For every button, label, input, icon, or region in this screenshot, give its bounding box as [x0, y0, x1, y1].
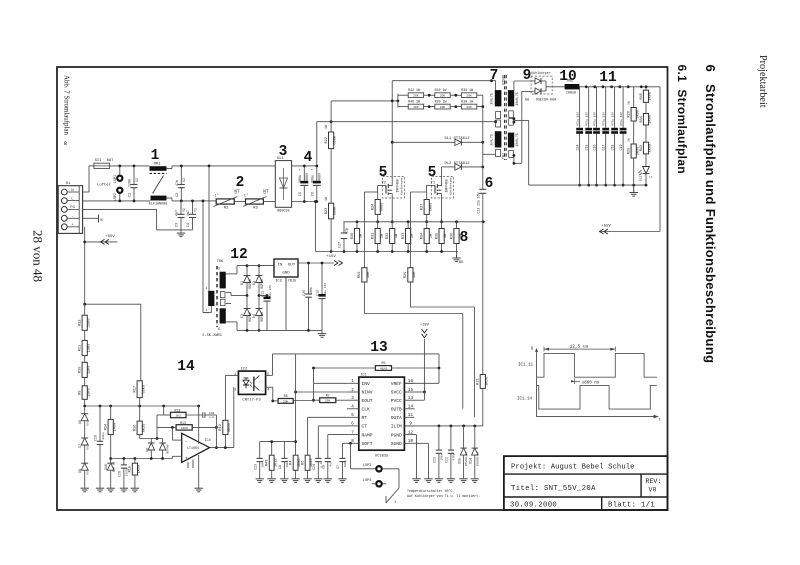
ILIM network wire	[404, 425, 482, 427]
svg-text:LSP3: LSP3	[363, 464, 372, 468]
resistor R39 20K 1W	[461, 88, 477, 98]
resistor R22 680K 1W	[325, 124, 338, 149]
clamp diode DL2 STTA612	[442, 162, 483, 170]
svg-text:RT: RT	[362, 415, 368, 421]
bleeder resistor R26 5W	[628, 87, 641, 144]
right margin header Projektarbeit	[757, 55, 768, 108]
svg-text:LSP4: LSP4	[363, 479, 372, 483]
period dimension 12,5 us	[544, 344, 615, 351]
TR6 secondary mid leads	[226, 292, 231, 294]
resistor R40 20K 1W	[435, 88, 451, 98]
R-network feed wire	[397, 100, 400, 103]
svg-text:PVCC: PVCC	[391, 398, 402, 404]
svg-text:LT1004: LT1004	[187, 446, 199, 450]
sense resistor R21	[477, 375, 490, 426]
rectifier diode D4 RGP10	[252, 296, 264, 331]
component R6 1K80	[301, 455, 314, 475]
svg-text:C9: C9	[278, 465, 282, 469]
wire AC top to TR6 primary	[208, 166, 210, 291]
svg-text:4n7: 4n7	[329, 461, 332, 467]
svg-text:C16: C16	[592, 145, 596, 151]
svg-text:12: 12	[230, 247, 247, 263]
section label 12	[230, 247, 247, 263]
plus terminal wire down to divider	[84, 227, 86, 242]
title block frame	[504, 456, 668, 510]
wire R16 to clamp diodes	[140, 438, 163, 440]
svg-text:20K: 20K	[325, 400, 331, 403]
section label 1	[151, 148, 160, 164]
gate pull resistor R27	[421, 192, 434, 223]
svg-text:R22: R22	[325, 137, 329, 143]
svg-text:15K0: 15K0	[87, 318, 91, 327]
divider feed wire from +55V terminal	[85, 303, 141, 305]
solder lug LSP2	[114, 188, 122, 201]
svg-text:B: B	[64, 141, 67, 147]
svg-text:X2: X2	[136, 178, 140, 182]
svg-text:+: +	[311, 169, 313, 173]
section label 5	[379, 165, 388, 181]
svg-text:C22: C22	[445, 457, 449, 463]
capacitor C3 4n7 Y2	[176, 201, 187, 230]
svg-text:100n: 100n	[261, 460, 264, 467]
svg-text:Kühlkörper: Kühlkörper	[449, 177, 453, 195]
waveform IC1.14 trace	[537, 386, 657, 410]
svg-text:EOUT: EOUT	[362, 398, 373, 404]
svg-text:+15V: +15V	[326, 255, 336, 259]
solder lug LSP4	[363, 479, 382, 486]
svg-text:R50: R50	[358, 272, 362, 278]
svg-text:C1: C1	[129, 193, 133, 197]
svg-text:5W: 5W	[628, 101, 631, 105]
section heading 6.1 Stromlaufplan	[675, 65, 689, 174]
svg-text:100u 16V: 100u 16V	[324, 283, 327, 298]
left margin caption Abb. 7 Stromlaufplan	[63, 75, 70, 135]
waveform diagram axes	[531, 348, 661, 423]
electrolytic C16 470u 63V	[592, 87, 599, 185]
svg-text:V0: V0	[649, 487, 657, 494]
svg-text:41K9: 41K9	[380, 368, 387, 371]
svg-text:62p: 62p	[345, 228, 349, 234]
svg-text:SOFT: SOFT	[362, 441, 373, 447]
wire SOFT pin to C7 and LSP3	[343, 442, 348, 444]
resistor R46 20K 1W	[408, 100, 424, 110]
svg-text:D6: D6	[78, 420, 82, 424]
waveform IC1.11 label	[518, 364, 534, 368]
earth ground of Y-caps	[177, 230, 185, 237]
svg-text:C19: C19	[619, 145, 623, 151]
svg-text:R8: R8	[284, 394, 288, 398]
shunt resistor R33	[402, 222, 415, 252]
svg-text:C5: C5	[299, 192, 303, 196]
section label 3	[279, 144, 288, 160]
svg-text:R45: R45	[640, 93, 644, 99]
svg-text:RGP10: RGP10	[260, 279, 264, 289]
svg-text:R3: R3	[253, 207, 258, 211]
svg-text:C11: C11	[261, 291, 265, 297]
+55V output rail	[579, 86, 660, 88]
svg-text:1K00: 1K00	[485, 377, 489, 386]
svg-text:+: +	[298, 169, 300, 173]
transformer TR2 primary windings	[489, 75, 506, 159]
svg-text:R23: R23	[325, 208, 329, 214]
shunt resistor R36	[450, 222, 463, 252]
component R4 1K80	[289, 455, 302, 475]
svg-text:100uH: 100uH	[566, 92, 576, 96]
svg-text:R46 1W: R46 1W	[408, 100, 420, 104]
component C7 100p	[336, 458, 347, 475]
svg-text:OUTB: OUTB	[391, 407, 402, 413]
clamp diode D10 BAV99	[159, 439, 169, 459]
capacitor C22 470p	[445, 426, 456, 483]
svg-text:15K0: 15K0	[87, 344, 91, 353]
wire VREF pin to R5 node	[438, 368, 440, 383]
svg-text:R24: R24	[372, 204, 376, 210]
+15V supply flag	[326, 255, 342, 266]
svg-text:B6: B6	[459, 260, 463, 264]
svg-text:20K: 20K	[413, 106, 419, 109]
svg-text:-t°: -t°	[212, 194, 218, 199]
ground under C7	[338, 476, 346, 483]
title block project row	[511, 463, 635, 471]
svg-text:6: 6	[218, 327, 220, 331]
reference node wire	[111, 458, 173, 460]
svg-text:R27: R27	[421, 204, 425, 210]
IC2 pin1 wire	[225, 374, 238, 376]
wire R22 to R23	[330, 149, 332, 204]
divider tap rail	[85, 405, 199, 407]
resistor R42 20K 1W	[408, 88, 424, 98]
svg-text:IN: IN	[278, 264, 283, 268]
svg-text:D15: D15	[457, 458, 461, 464]
TR2 secondary center tap to return	[513, 117, 516, 120]
svg-text:X1: X1	[66, 182, 71, 186]
svg-text:6R80: 6R80	[429, 203, 433, 212]
component C9 100n	[278, 458, 289, 475]
common-mode choke DR1 ELF18N008	[149, 163, 167, 207]
IC2 pin5 riser to VREF bus	[266, 374, 273, 376]
svg-text:220n: 220n	[129, 179, 133, 187]
wire C13 stem	[259, 455, 261, 458]
svg-text:R2: R2	[224, 207, 229, 211]
shunt resistor R31	[372, 222, 385, 252]
transformer TR6 primary winding	[206, 260, 224, 312]
capacitor C4 4n7 Y2	[187, 201, 198, 230]
clamp diode DL1 STTA612	[392, 137, 483, 145]
svg-text:R31: R31	[372, 233, 376, 239]
svg-text:BYW98-40: BYW98-40	[476, 452, 479, 466]
resistor R15 1K00	[129, 459, 142, 492]
ground of aux supply	[318, 330, 326, 337]
capacitor C29 220n	[94, 406, 105, 492]
feedback resistor R8 20K	[273, 394, 314, 403]
T2 source down to shunt rail	[391, 194, 393, 222]
wire tap to R-network node	[331, 100, 398, 102]
svg-text:470u 63V: 470u 63V	[612, 112, 615, 126]
svg-text:C2: C2	[176, 193, 180, 197]
svg-text:≥860 ns: ≥860 ns	[582, 380, 600, 385]
svg-text:R5: R5	[382, 361, 386, 365]
temperature switch note	[407, 489, 480, 498]
wire RT pin to R6	[308, 416, 347, 418]
svg-text:R43: R43	[640, 145, 644, 151]
sense resistor R17 56K0	[134, 381, 147, 406]
svg-text:VREF: VREF	[391, 381, 402, 387]
zener D6 6V2	[78, 406, 90, 438]
optocoupler IC2 CNY17-F3	[234, 367, 269, 402]
divider resistor R12 15K0	[79, 304, 92, 340]
electrolytic C19 470u 63V	[619, 87, 627, 185]
svg-text:100n: 100n	[309, 287, 313, 295]
resistor R14	[105, 406, 118, 463]
svg-text:SGND: SGND	[391, 441, 402, 447]
svg-text:4n7: 4n7	[176, 210, 180, 216]
svg-text:TR6: TR6	[217, 260, 223, 264]
svg-text:1K00: 1K00	[649, 144, 653, 153]
svg-text:D7: D7	[78, 444, 82, 448]
svg-text:8K66: 8K66	[228, 423, 232, 432]
MOSFET T1 IRFP460	[431, 177, 454, 199]
svg-text:LSP2: LSP2	[114, 193, 118, 201]
svg-text:470p: 470p	[453, 453, 456, 460]
wire CT pin to C24	[318, 425, 347, 427]
NINV divider riser	[295, 354, 297, 455]
svg-text:6R80: 6R80	[380, 203, 384, 212]
opto feed resistor R19 8K66	[219, 375, 232, 449]
svg-text:Abb. 7 Stromlaufplan: Abb. 7 Stromlaufplan	[63, 75, 70, 135]
electrolytic C17 470u 63V	[602, 87, 610, 185]
svg-text:56K0: 56K0	[142, 385, 146, 394]
wire L terminal (AC bottom)	[83, 200, 151, 202]
svg-text:400V: 400V	[305, 173, 309, 181]
divider resistor R11 15K0	[79, 340, 92, 362]
TR2 secondary lower lead to G8	[514, 162, 522, 164]
svg-text:NINV: NINV	[362, 390, 373, 396]
svg-text:RGP10: RGP10	[248, 279, 252, 289]
svg-text:10E: 10E	[413, 272, 417, 278]
svg-text:Kühlkörper: Kühlkörper	[400, 177, 404, 195]
svg-text:11: 11	[599, 70, 617, 86]
rectifier diode D2 RGP10	[252, 266, 264, 296]
wire fuse to filter (AC top)	[110, 165, 150, 167]
svg-text:RAMP: RAMP	[362, 432, 373, 438]
svg-text:C6: C6	[311, 192, 315, 196]
reference zener D16 6V2 1%	[104, 462, 116, 492]
ground under C13	[256, 476, 264, 483]
wire primary feed to TR2 top	[392, 80, 495, 82]
svg-text:C26: C26	[302, 290, 306, 296]
waveform IC1.11 trace	[537, 353, 657, 377]
svg-text:n.b.: n.b.	[209, 415, 216, 419]
svg-text:R16: R16	[134, 425, 138, 431]
capacitor C26 100n	[302, 263, 313, 330]
svg-text:6AT: 6AT	[107, 159, 115, 163]
capacitor C2 47n X2	[176, 166, 187, 201]
svg-text:R13: R13	[180, 421, 186, 425]
divider resistor R9 15K0	[79, 386, 92, 406]
svg-text:Projekt: August Bebel Schule: Projekt: August Bebel Schule	[511, 463, 635, 471]
wire R3 to bridge	[263, 201, 275, 203]
svg-text:5: 5	[379, 165, 388, 181]
output return rail	[529, 184, 647, 186]
svg-text:R26: R26	[628, 111, 632, 117]
component C8 4n7	[322, 458, 333, 475]
deadtime dimension 860 ns	[571, 379, 600, 386]
wire R network tap riser	[330, 101, 332, 122]
svg-text:R40 1W: R40 1W	[435, 88, 447, 92]
svg-text:C27: C27	[338, 242, 342, 248]
wire R2 to R3	[234, 201, 245, 203]
svg-text:D8: D8	[78, 469, 82, 473]
section label 6	[485, 176, 494, 192]
svg-text:GL1: GL1	[277, 157, 285, 161]
wire FG to Y-cap ground rail	[83, 208, 157, 210]
svg-text:C17: C17	[602, 145, 606, 151]
svg-text:1: 1	[206, 286, 208, 290]
svg-text:24K9: 24K9	[181, 427, 188, 430]
svg-text:R7: R7	[326, 393, 330, 397]
drawing frame border	[57, 67, 668, 510]
wire T1 drain riser	[441, 167, 443, 186]
minus terminal net flag B	[83, 215, 104, 224]
svg-text:470u 63V: 470u 63V	[586, 112, 589, 126]
rectifier diode D1 RGP10	[240, 266, 252, 296]
electrolytic C6 680u 400V	[310, 166, 321, 202]
svg-text:3x0,75: 3x0,75	[489, 134, 493, 146]
svg-text:C7: C7	[336, 465, 340, 469]
capacitor C1 220n X2	[129, 166, 140, 201]
IC3 output wire to +15V	[298, 262, 334, 264]
svg-text:20K: 20K	[413, 95, 419, 98]
svg-text:R18: R18	[175, 408, 181, 412]
IC4 ground leg	[195, 406, 203, 492]
wire down to R17	[140, 304, 142, 381]
svg-text:1K2: 1K2	[175, 415, 181, 418]
svg-text:680K: 680K	[334, 135, 338, 144]
resistor R5 41K9	[314, 361, 440, 370]
TR2 primary bottom lead	[483, 153, 496, 155]
transformer TR2 secondary windings	[508, 90, 519, 157]
PGND wire to ground	[412, 435, 420, 483]
svg-text:6V2 1%: 6V2 1%	[113, 462, 116, 473]
feedback loop wires	[215, 415, 217, 448]
svg-text:R29: R29	[404, 272, 408, 278]
resistor R16	[134, 406, 147, 439]
svg-text:RGP10: RGP10	[260, 312, 264, 322]
component C24 n.b.	[312, 458, 323, 475]
svg-text:UC3825: UC3825	[375, 454, 389, 458]
svg-text:R32: R32	[386, 233, 390, 239]
svg-text:t: t	[658, 419, 660, 423]
svg-text:R42 1W: R42 1W	[408, 88, 420, 92]
TR2 core	[505, 75, 507, 160]
svg-text:10E: 10E	[367, 272, 371, 278]
wire rectifier output to regulator	[247, 265, 274, 267]
section label 5	[428, 165, 437, 181]
svg-text:R38 1W: R38 1W	[461, 100, 473, 104]
source shunt rail	[343, 221, 485, 223]
resistor R23 680K 1W	[325, 196, 338, 219]
svg-text:30.09.2000: 30.09.2000	[510, 501, 557, 509]
svg-text:+55V: +55V	[105, 235, 115, 239]
SGND wire to ground	[415, 443, 433, 482]
svg-text:R10: R10	[79, 367, 83, 373]
svg-text:N̲T: N̲T	[263, 189, 269, 195]
svg-text:+: +	[185, 456, 188, 461]
TR6 core	[216, 266, 218, 327]
wire divider tap	[330, 122, 332, 132]
PWM IC1 UC3825	[347, 373, 415, 458]
svg-text:1K00: 1K00	[138, 465, 142, 474]
IC4 output wire	[210, 447, 234, 449]
svg-text:D3: D3	[240, 314, 244, 318]
wire bridge+ up to primary feed	[316, 122, 318, 166]
chassis ground of shunt rail	[452, 252, 463, 265]
svg-text:IC2: IC2	[241, 367, 247, 371]
NTC thermistor R2	[212, 189, 240, 211]
+18V supply flag for driver	[420, 324, 430, 393]
zone letter B	[64, 141, 67, 147]
wire choke top to bridge	[167, 168, 173, 170]
svg-text:47n: 47n	[176, 180, 180, 186]
wire C13 R48 C9 tops	[260, 441, 296, 443]
T1 source down to shunt rail	[441, 194, 443, 222]
svg-text:9: 9	[523, 68, 532, 84]
svg-text:R9: R9	[79, 390, 83, 394]
svg-text:R48: R48	[266, 460, 270, 466]
svg-text:C29: C29	[94, 435, 98, 441]
section label 7	[490, 68, 499, 84]
svg-text:BAV99: BAV99	[166, 444, 169, 453]
capacitor C21 100n	[433, 426, 444, 483]
MOSFET T2 IRFP460	[382, 177, 405, 199]
gate pull resistor R24	[372, 192, 385, 223]
svg-text:SI1: SI1	[95, 159, 103, 163]
resistor R20 20K 1W	[435, 100, 451, 110]
electrolytic C15 470u 63V	[585, 87, 593, 185]
svg-text:C18: C18	[611, 145, 615, 151]
aux ground rail	[247, 329, 322, 331]
zener D8 6V2	[78, 463, 90, 485]
svg-text:GND: GND	[282, 272, 290, 276]
svg-text:12,5 us: 12,5 us	[570, 344, 589, 349]
svg-text:680K: 680K	[334, 206, 338, 215]
electrolytic C14 470u 63V	[576, 87, 584, 185]
section label 2	[236, 175, 245, 191]
svg-text:D12: D12	[640, 176, 643, 182]
svg-text:7815: 7815	[288, 280, 297, 284]
TR6 secondary bottom lead	[226, 321, 237, 323]
svg-text:20K: 20K	[466, 106, 472, 109]
svg-text:C23 22u 16V: C23 22u 16V	[476, 192, 480, 213]
T1 gate wire	[410, 191, 426, 193]
svg-text:470u 63V: 470u 63V	[620, 112, 623, 126]
svg-text:10x0,75: 10x0,75	[515, 92, 519, 105]
wire bridge- down to return rail	[314, 202, 316, 252]
svg-text:15K0: 15K0	[87, 388, 91, 397]
svg-text:20K: 20K	[283, 400, 289, 403]
T2 gate wire	[364, 191, 377, 193]
svg-text:CLK: CLK	[362, 407, 371, 413]
R network row wires	[398, 94, 483, 108]
svg-text:IC1.14: IC1.14	[517, 398, 533, 402]
transformer TR6 secondary windings	[218, 267, 226, 332]
svg-text:IRFP460: IRFP460	[445, 179, 449, 192]
svg-text:R30: R30	[351, 233, 355, 239]
svg-text:5: 5	[428, 165, 437, 181]
ground under R4	[291, 476, 299, 483]
svg-text:R36: R36	[450, 233, 454, 239]
ground under R6	[303, 476, 311, 483]
